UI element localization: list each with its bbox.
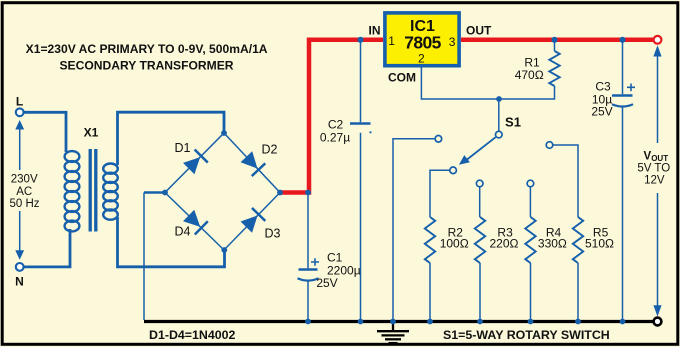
svg-text:IN: IN: [369, 24, 381, 38]
svg-text:COM: COM: [388, 70, 416, 84]
svg-text:230V: 230V: [11, 173, 38, 185]
svg-text:D1-D4=1N4002: D1-D4=1N4002: [149, 328, 236, 342]
svg-text:D3: D3: [265, 227, 281, 241]
svg-text:N: N: [15, 275, 24, 289]
svg-text:C2: C2: [328, 118, 344, 132]
svg-text:L: L: [16, 95, 23, 109]
svg-text:470Ω: 470Ω: [515, 68, 544, 82]
svg-text:510Ω: 510Ω: [585, 237, 614, 251]
svg-text:330Ω: 330Ω: [538, 237, 567, 251]
svg-text:50 Hz: 50 Hz: [9, 198, 39, 210]
svg-text:100Ω: 100Ω: [440, 237, 469, 251]
svg-text:AC: AC: [16, 186, 32, 198]
svg-text:1: 1: [388, 34, 395, 48]
svg-text:5V TO: 5V TO: [637, 163, 670, 175]
svg-text:12V: 12V: [644, 175, 665, 187]
svg-text:C1: C1: [327, 251, 343, 265]
svg-text:OUT: OUT: [466, 24, 492, 38]
svg-text:3: 3: [449, 35, 456, 49]
svg-text:X1: X1: [84, 126, 99, 140]
svg-text:D1: D1: [175, 141, 191, 155]
svg-text:2: 2: [418, 51, 425, 65]
svg-text:220Ω: 220Ω: [490, 237, 519, 251]
svg-text:7805: 7805: [404, 32, 441, 52]
svg-text:D2: D2: [262, 143, 278, 157]
svg-text:S1: S1: [505, 115, 521, 130]
svg-text:25V: 25V: [591, 105, 612, 119]
svg-text:D4: D4: [175, 225, 191, 239]
svg-text:S1=5-WAY ROTARY SWITCH: S1=5-WAY ROTARY SWITCH: [443, 328, 610, 342]
svg-text:C3: C3: [595, 80, 611, 94]
svg-text:SECONDARY TRANSFORMER: SECONDARY TRANSFORMER: [59, 59, 233, 73]
svg-text:0.27µ: 0.27µ: [320, 131, 350, 145]
svg-text:X1=230V AC PRIMARY TO 0-9V, 50: X1=230V AC PRIMARY TO 0-9V, 500mA/1A: [26, 42, 268, 56]
svg-text:25V: 25V: [316, 276, 337, 290]
